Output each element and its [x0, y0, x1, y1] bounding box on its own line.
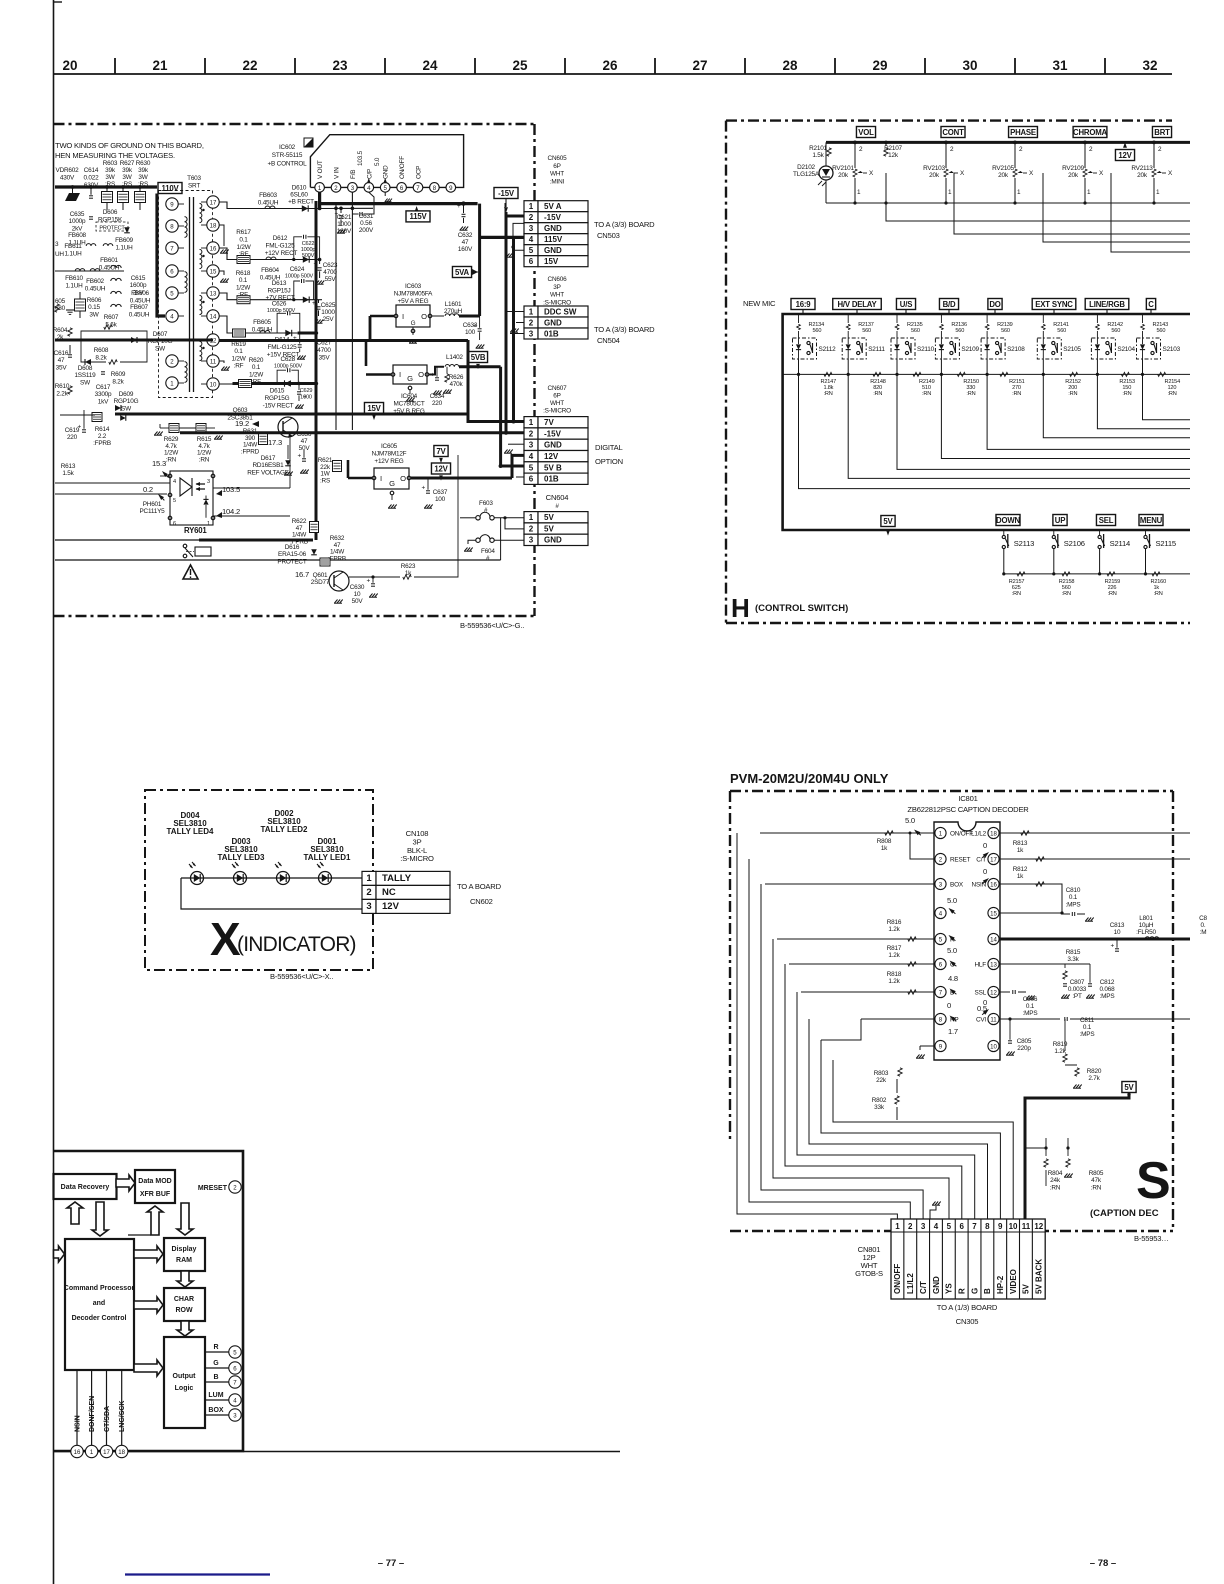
R621 hatched — [333, 461, 342, 472]
svg-text:R620: R620 — [249, 357, 264, 364]
connector CN606 — [524, 306, 538, 317]
svg-text:2: 2 — [529, 213, 534, 222]
svg-text:G: G — [389, 479, 395, 488]
svg-text:1: 1 — [895, 1222, 900, 1231]
svg-text:and: and — [93, 1300, 105, 1307]
svg-text::FPRB: :FPRB — [93, 440, 111, 447]
svg-text:7: 7 — [972, 1222, 977, 1231]
ladder bus wire — [783, 373, 1190, 375]
svg-text:19.2: 19.2 — [235, 419, 249, 428]
R619 hatched resistor — [233, 329, 246, 337]
svg-text:S2108: S2108 — [1007, 346, 1025, 353]
arrow display ram to char row — [177, 1271, 193, 1287]
IC801 pin 11 — [988, 1013, 999, 1024]
svg-text::RN: :RN — [1122, 391, 1131, 397]
svg-text:FB602: FB602 — [86, 278, 104, 285]
Output Logic box — [164, 1337, 205, 1428]
svg-text:115V: 115V — [410, 212, 428, 221]
R623 wire — [349, 576, 400, 578]
C625 capacitor — [318, 300, 320, 303]
svg-text:0: 0 — [947, 1001, 951, 1010]
svg-text:560: 560 — [1111, 328, 1120, 334]
svg-text:3: 3 — [207, 479, 210, 485]
D612 diode — [292, 258, 295, 261]
svg-text:G: G — [407, 374, 413, 383]
boxed label CHROMA — [1073, 127, 1107, 138]
svg-text:FB611: FB611 — [64, 243, 82, 250]
thick 14 rail — [1000, 938, 1190, 941]
C621 capacitor — [318, 207, 322, 211]
fuse F604 — [476, 538, 480, 542]
boxed label H/V DELAY — [833, 299, 882, 310]
svg-text:0.0033: 0.0033 — [1068, 986, 1087, 993]
svg-text:CN503: CN503 — [597, 231, 620, 240]
svg-text:29: 29 — [872, 58, 887, 73]
svg-text:F603: F603 — [479, 500, 493, 507]
transformer primary winding — [185, 217, 188, 238]
svg-text:+B RECT: +B RECT — [288, 199, 314, 206]
IC801 pin 14 — [988, 933, 999, 944]
svg-text:SW: SW — [155, 345, 166, 352]
svg-text:D607: D607 — [153, 331, 168, 338]
svg-text:NSIN: NSIN — [75, 1415, 82, 1432]
svg-text:+12V RECT: +12V RECT — [265, 250, 298, 257]
svg-text:WHT: WHT — [550, 292, 564, 299]
svg-text:R820: R820 — [1087, 1068, 1102, 1075]
svg-text:0: 0 — [983, 867, 987, 876]
svg-text:0.1: 0.1 — [239, 277, 248, 284]
svg-text:10: 10 — [1009, 1222, 1018, 1231]
svg-text:Output: Output — [173, 1373, 197, 1380]
svg-text:SEL: SEL — [1099, 516, 1114, 525]
5VA thick rail — [478, 204, 481, 316]
svg-text:3: 3 — [366, 901, 371, 912]
caption block dash-dot border top — [730, 790, 1173, 792]
diode near R614 — [120, 415, 126, 421]
switch column drop to ladder — [996, 355, 998, 375]
svg-text:C: C — [1148, 300, 1154, 309]
svg-text:5VA: 5VA — [455, 268, 470, 277]
svg-text:FB603: FB603 — [259, 192, 277, 199]
svg-text:0.022: 0.022 — [84, 174, 100, 181]
switch S2112 — [793, 338, 817, 359]
switch S2106 — [1052, 535, 1055, 538]
svg-text:V OUT: V OUT — [317, 160, 324, 179]
svg-text:110V: 110V — [162, 184, 180, 193]
svg-text:2.7k: 2.7k — [1088, 1075, 1100, 1082]
wires around PH601 — [55, 482, 170, 484]
svg-text:R604: R604 — [53, 327, 68, 334]
svg-text:27: 27 — [692, 58, 707, 73]
svg-text:R: R — [957, 1288, 966, 1294]
L1402 coil and 5VB rail — [429, 367, 444, 375]
boxed label CONT — [941, 127, 965, 138]
7V boxed label — [434, 446, 448, 457]
svg-text:FML-G125: FML-G125 — [268, 344, 298, 351]
thin wire CN607 01B — [457, 476, 459, 478]
svg-text:D617: D617 — [261, 455, 276, 462]
svg-text:5.0: 5.0 — [947, 896, 957, 905]
svg-text:2SD77: 2SD77 — [311, 579, 330, 586]
svg-text:103.5: 103.5 — [357, 150, 364, 166]
svg-text:R614: R614 — [95, 426, 110, 433]
rail +B from pin17 — [219, 202, 320, 209]
svg-text:RESET: RESET — [950, 857, 971, 864]
connector CN607 — [524, 417, 538, 428]
svg-text:R623: R623 — [401, 563, 416, 570]
FB603 coil — [265, 206, 275, 209]
svg-text:560: 560 — [1001, 328, 1010, 334]
svg-text:CT/SDA: CT/SDA — [104, 1406, 111, 1432]
svg-text:UP: UP — [1055, 516, 1065, 525]
thick 115V feed to CN605 pin4 — [480, 236, 524, 239]
boxed label 16:9 — [791, 299, 815, 310]
svg-text:ROW: ROW — [175, 1307, 193, 1314]
arrow command to char row — [134, 1297, 163, 1313]
svg-text:S2110: S2110 — [917, 346, 935, 353]
svg-text:12V: 12V — [1118, 151, 1132, 160]
svg-text::RN: :RN — [966, 391, 975, 397]
svg-text:D2102: D2102 — [797, 164, 815, 171]
svg-text:ON/OFF: ON/OFF — [950, 831, 973, 838]
svg-text:47: 47 — [301, 438, 308, 445]
zener D617 — [285, 460, 291, 466]
svg-text:+: + — [78, 424, 82, 431]
svg-text::MPS: :MPS — [1080, 1031, 1095, 1038]
svg-text:33k: 33k — [874, 1104, 885, 1111]
switch matrix thick border — [783, 314, 1190, 530]
svg-text::RN: :RN — [1168, 391, 1177, 397]
D607 diode — [131, 337, 137, 343]
X block dash-dot border — [145, 790, 373, 970]
gnd under IC602 pin5 — [384, 192, 386, 196]
switch S2114 — [1098, 535, 1101, 538]
svg-text:R608: R608 — [94, 347, 109, 354]
svg-text:R802: R802 — [872, 1097, 887, 1104]
svg-text:560: 560 — [955, 328, 964, 334]
svg-text:H: H — [731, 593, 750, 623]
rail +7V from pin13 — [219, 293, 314, 300]
IC801 pin 9 — [935, 1040, 946, 1051]
svg-text:12: 12 — [990, 990, 997, 997]
blue footer rule — [125, 1573, 270, 1575]
svg-text:15V: 15V — [544, 257, 559, 266]
svg-text:10: 10 — [990, 1044, 997, 1051]
led wire — [181, 877, 362, 879]
svg-text:+: + — [1111, 943, 1115, 950]
svg-text:R619: R619 — [231, 341, 246, 348]
svg-text:FB604: FB604 — [261, 267, 279, 274]
IC801 pin 18 — [988, 827, 999, 838]
IC604 box — [393, 365, 427, 384]
svg-text:6SL60: 6SL60 — [290, 192, 308, 199]
svg-text:C621: C621 — [337, 214, 352, 221]
inductor arcs FB609 — [86, 244, 96, 246]
svg-text:C627: C627 — [317, 340, 332, 347]
svg-text:16: 16 — [74, 1449, 81, 1456]
H block dash-dot border bottom — [726, 622, 1190, 624]
rail +12V from pin16 — [219, 248, 320, 260]
IC801 pin 4 — [935, 907, 946, 918]
svg-text::RN: :RN — [922, 391, 931, 397]
svg-text:RGP15G: RGP15G — [265, 395, 290, 402]
svg-text:5.0: 5.0 — [374, 157, 381, 166]
5V boxed label caption — [1122, 1082, 1136, 1093]
svg-text:D614: D614 — [275, 337, 290, 344]
svg-text:R813: R813 — [1013, 840, 1028, 847]
svg-text::MPS: :MPS — [1100, 993, 1115, 1000]
transformer secondary pins — [207, 196, 219, 208]
R607 resistor — [104, 325, 112, 329]
svg-text:NC: NC — [382, 887, 396, 898]
svg-text:CN504: CN504 — [597, 336, 620, 345]
svg-text:3: 3 — [529, 536, 534, 545]
svg-text:35V: 35V — [319, 354, 331, 361]
G block dash-dot border top — [54, 123, 537, 125]
FB605 coil — [260, 331, 270, 334]
svg-text:16: 16 — [990, 882, 997, 889]
svg-text:1: 1 — [366, 873, 372, 884]
svg-text:VDR602: VDR602 — [56, 167, 80, 174]
svg-text:D608: D608 — [78, 365, 93, 372]
svg-text:L1402: L1402 — [446, 354, 463, 361]
IC801 pin 7 — [935, 986, 946, 997]
wire into IC605 — [348, 477, 372, 480]
svg-text:2: 2 — [908, 1222, 913, 1231]
svg-text:1.2k: 1.2k — [888, 952, 900, 959]
svg-text:0: 0 — [983, 841, 987, 850]
IC801 outline with notch — [934, 822, 1000, 1060]
svg-text:25: 25 — [512, 58, 528, 73]
svg-text:S2114: S2114 — [1110, 539, 1130, 548]
svg-text:RGP10G: RGP10G — [148, 338, 173, 345]
relay wires — [55, 539, 199, 541]
svg-text:0.5: 0.5 — [977, 1004, 987, 1013]
boxed label SEL — [1096, 515, 1115, 526]
svg-text:01B: 01B — [544, 475, 559, 484]
IC602 package mark — [304, 138, 313, 147]
svg-text:R805: R805 — [1089, 1170, 1104, 1177]
R632 hatched — [320, 558, 330, 566]
svg-text:+: + — [457, 203, 461, 210]
svg-text:LUM: LUM — [208, 1392, 223, 1399]
svg-text:D616: D616 — [285, 544, 300, 551]
svg-text:PVM-20M2U/20M4U ONLY: PVM-20M2U/20M4U ONLY — [730, 771, 889, 786]
svg-text:560: 560 — [1057, 328, 1066, 334]
svg-text:7V: 7V — [436, 447, 446, 456]
svg-text:I: I — [380, 474, 382, 483]
svg-text:10: 10 — [354, 591, 361, 598]
svg-text:1kV: 1kV — [98, 398, 109, 405]
svg-text:10µH: 10µH — [1139, 922, 1154, 929]
arrow up into xfr buf — [128, 1234, 151, 1236]
C622 loop capacitor — [294, 237, 302, 260]
svg-text:SSL: SSL — [975, 990, 987, 997]
svg-text:BOX: BOX — [208, 1407, 224, 1414]
arrow down to command processor — [92, 1202, 108, 1236]
pin17 wire right — [1000, 858, 1190, 860]
R631 hatched resistor — [259, 434, 268, 445]
svg-text:35V: 35V — [56, 364, 68, 371]
bottom pot bus wire — [826, 202, 1190, 204]
svg-text:3: 3 — [351, 185, 355, 192]
svg-text:18: 18 — [118, 1449, 125, 1456]
svg-text:0.1: 0.1 — [234, 348, 243, 355]
svg-text:GND: GND — [544, 441, 562, 450]
svg-text:1.1UH: 1.1UH — [115, 244, 133, 251]
svg-text:104.2: 104.2 — [222, 507, 240, 516]
svg-text:8: 8 — [433, 185, 437, 192]
svg-text:12: 12 — [1034, 1222, 1043, 1231]
svg-text:C632: C632 — [458, 232, 473, 239]
svg-text:CVI: CVI — [976, 1017, 986, 1024]
svg-text:0.: 0. — [1201, 922, 1206, 929]
boxed label B/D — [939, 299, 958, 310]
svg-text:WHT: WHT — [550, 171, 564, 178]
svg-text:5: 5 — [384, 185, 388, 192]
svg-text:8: 8 — [985, 1222, 990, 1231]
svg-text:1.2k: 1.2k — [888, 926, 900, 933]
svg-text:G: G — [970, 1288, 979, 1294]
svg-text:TO A (3/3) BOARD: TO A (3/3) BOARD — [594, 325, 655, 334]
svg-text:DIGITAL: DIGITAL — [595, 443, 623, 452]
boxed label LINE/RGB — [1085, 299, 1129, 310]
svg-text::RS: :RS — [105, 181, 115, 188]
svg-text:D609: D609 — [119, 391, 134, 398]
svg-text::RN: :RN — [824, 391, 833, 397]
svg-text:8.2k: 8.2k — [95, 354, 107, 361]
svg-text:1000: 1000 — [337, 221, 351, 228]
IC801 pin 5 — [935, 933, 946, 944]
svg-text:560: 560 — [1157, 328, 1166, 334]
svg-text:47: 47 — [462, 239, 469, 246]
varistor symbol — [65, 193, 80, 201]
svg-text:560: 560 — [911, 328, 920, 334]
arrow into command left — [54, 1246, 65, 1262]
svg-text:DO: DO — [989, 300, 1000, 309]
thick 12V to CN607 12V row — [512, 455, 524, 478]
svg-text:+: + — [473, 323, 477, 330]
svg-text::FPRD: :FPRD — [241, 448, 260, 455]
svg-text:R2101: R2101 — [809, 145, 827, 152]
arrow char row to output logic — [177, 1321, 193, 1336]
svg-text:R816: R816 — [887, 919, 902, 926]
svg-text:560: 560 — [813, 328, 822, 334]
svg-text:CHROMA: CHROMA — [1073, 128, 1107, 137]
svg-text:B-55953…: B-55953… — [1134, 1234, 1169, 1243]
svg-text::M: :M — [1200, 929, 1207, 936]
svg-text:GND: GND — [383, 165, 390, 179]
svg-text:R803: R803 — [874, 1070, 889, 1077]
svg-text:+12V REG: +12V REG — [374, 458, 403, 465]
svg-text:TLG125A: TLG125A — [793, 171, 820, 178]
svg-text:R606: R606 — [87, 297, 102, 304]
svg-text:28: 28 — [782, 58, 798, 73]
svg-text:220: 220 — [432, 400, 443, 407]
svg-text:R817: R817 — [887, 945, 902, 952]
svg-text:C617: C617 — [96, 384, 111, 391]
svg-text:8.2k: 8.2k — [112, 378, 124, 385]
svg-text:5V BACK: 5V BACK — [1035, 1259, 1044, 1294]
svg-text:5V: 5V — [544, 524, 554, 533]
svg-text:12V: 12V — [434, 464, 448, 473]
svg-text:ON/OFF: ON/OFF — [399, 156, 406, 179]
5VB boxed label — [468, 352, 487, 363]
svg-text:1.1UH: 1.1UH — [65, 282, 83, 289]
svg-text:4: 4 — [529, 235, 534, 244]
svg-text::MINI: :MINI — [550, 178, 565, 185]
svg-text:IC801: IC801 — [958, 794, 977, 803]
svg-text:B/D: B/D — [943, 300, 956, 309]
svg-text:STR-55115: STR-55115 — [272, 152, 303, 159]
switch S2109 — [935, 338, 959, 359]
switch column drop to ladder — [906, 355, 908, 375]
svg-text:6: 6 — [959, 1222, 964, 1231]
svg-text:-15V: -15V — [544, 429, 562, 438]
svg-text:L1/L2: L1/L2 — [906, 1273, 915, 1294]
thick wire from pin12 — [219, 339, 468, 342]
svg-text:470k: 470k — [449, 381, 463, 388]
svg-text:1: 1 — [529, 202, 534, 211]
Display RAM box — [164, 1238, 205, 1271]
IC605 box — [374, 468, 409, 489]
110V bus junction dots — [71, 185, 75, 189]
wire IC602 pin1 to B+ rail — [318, 192, 321, 208]
svg-text:20k: 20k — [1068, 172, 1079, 179]
svg-text:F604: F604 — [481, 548, 495, 555]
CHAR ROW box — [164, 1288, 205, 1321]
-15V boxed label — [494, 188, 518, 199]
svg-text:6: 6 — [529, 475, 534, 484]
svg-text:FB608: FB608 — [68, 232, 86, 239]
PH601 led symbol — [180, 478, 192, 496]
IC801 pin 8 — [935, 1013, 946, 1024]
matrix staircase wires to right — [799, 374, 1191, 488]
svg-text:13: 13 — [990, 962, 997, 969]
svg-text:TALLY LED3: TALLY LED3 — [218, 853, 266, 862]
pin6 wire — [789, 963, 935, 965]
svg-text:2.2: 2.2 — [98, 433, 107, 440]
svg-text:S2112: S2112 — [819, 346, 837, 353]
D615 diode — [285, 380, 291, 386]
svg-text:5V: 5V — [544, 513, 554, 522]
svg-text:2: 2 — [529, 318, 534, 327]
svg-text::RF: :RF — [234, 363, 244, 370]
IC801 pin 2 — [935, 853, 946, 864]
wire top loop — [83, 410, 85, 415]
svg-text:R618: R618 — [236, 270, 251, 277]
caption block dash-dot border left — [729, 791, 731, 1141]
thick bus to CN607 7V — [115, 414, 524, 422]
Q603 transistor — [278, 417, 298, 437]
svg-text:3P: 3P — [553, 284, 560, 291]
svg-text:B: B — [213, 1374, 218, 1381]
svg-text:26: 26 — [602, 58, 618, 73]
switch column drop to ladder — [808, 355, 810, 375]
svg-text:1k: 1k — [1017, 873, 1024, 880]
svg-text:1k: 1k — [881, 845, 888, 852]
svg-text:R804: R804 — [1048, 1170, 1063, 1177]
svg-text:17: 17 — [103, 1449, 110, 1456]
svg-text:1: 1 — [529, 307, 534, 316]
switch S2111 — [842, 338, 866, 359]
svg-text:TWO KINDS OF GROUND ON THIS BO: TWO KINDS OF GROUND ON THIS BOARD, — [55, 141, 204, 150]
svg-text:0.1: 0.1 — [239, 236, 248, 243]
L1601 coil — [432, 315, 444, 317]
svg-text:GTOB-S: GTOB-S — [855, 1269, 883, 1278]
svg-text:NEW MIC: NEW MIC — [743, 299, 776, 308]
gnd stub pin15 — [219, 271, 223, 341]
